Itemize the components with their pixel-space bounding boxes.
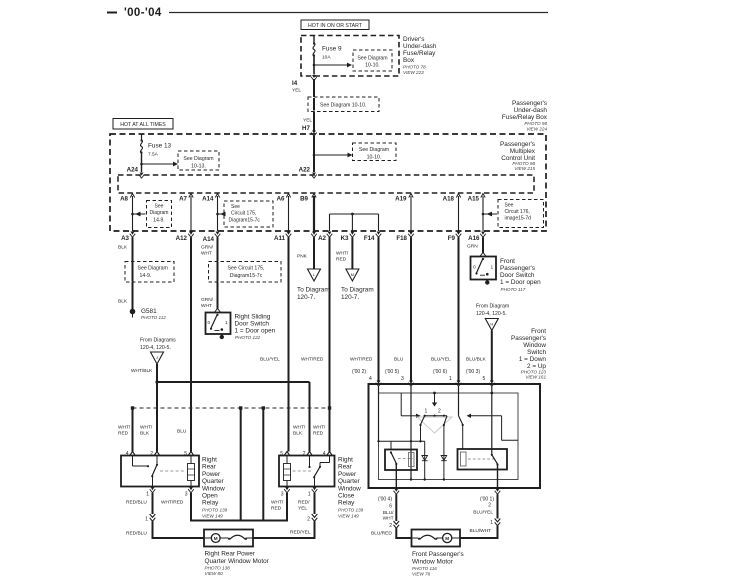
svg-text:120-7.: 120-7. [297, 294, 315, 301]
connector A16 [468, 232, 486, 243]
svg-text:'00-'04: '00-'04 [124, 7, 162, 19]
wire I4 to H7 [313, 79, 315, 131]
wire A18-F9 [458, 196, 460, 231]
wire A15-A16 [482, 196, 484, 231]
svg-text:('00 6): ('00 6) [433, 369, 447, 375]
svg-text:A24: A24 [127, 167, 139, 174]
svg-text:PHOTO 78: PHOTO 78 [403, 65, 426, 70]
svg-text:PHOTO 98: PHOTO 98 [524, 121, 547, 126]
passenger's multiplex control unit label [500, 141, 536, 171]
close relay pin 2 connector [303, 451, 313, 457]
svg-text:('00 2): ('00 2) [352, 369, 366, 375]
wire K3 WHT/RED to off-page arrow [336, 237, 352, 269]
svg-text:BLK: BLK [118, 299, 128, 305]
svg-text:WHT/: WHT/ [271, 500, 284, 506]
svg-text:('00 5): ('00 5) [385, 369, 399, 375]
svg-text:See: See [155, 204, 164, 210]
svg-text:Fuse/Relay: Fuse/Relay [403, 50, 436, 57]
svg-text:1: 1 [146, 492, 149, 498]
svg-text:2: 2 [389, 523, 392, 529]
svg-text:F18: F18 [396, 235, 407, 242]
quarter window motor label [205, 551, 270, 577]
wire BLU/BLK down to window switch pin 5 [466, 331, 492, 383]
connector A24 [127, 167, 145, 179]
svg-text:A3: A3 [121, 235, 129, 242]
wire A19-F18 [410, 196, 412, 231]
junction + arrow to see-diagram box [313, 63, 352, 68]
wire tie to lower WHT/RED bus (right) [262, 408, 264, 521]
multiplex control unit band (inner dashed box) [118, 175, 534, 193]
svg-text:RED: RED [313, 431, 324, 437]
wire B9 down [313, 196, 315, 231]
wire tie to open relay pin 4 [132, 408, 134, 452]
wire F18 down to window switch pin 3 [385, 237, 411, 382]
dashed tie line (connector) [131, 406, 331, 409]
wire WHT/BLK from triangle to open relay pin 2 [131, 364, 157, 452]
close relay interior [284, 456, 330, 487]
svg-text:B9: B9 [300, 196, 308, 203]
svg-text:BLU: BLU [177, 429, 187, 435]
svg-text:Window: Window [523, 342, 546, 349]
svg-text:H7: H7 [302, 125, 310, 132]
svg-text:WHT/RED: WHT/RED [301, 357, 324, 363]
svg-text:BLU/RED: BLU/RED [371, 531, 392, 537]
svg-text:Door Switch: Door Switch [235, 321, 270, 328]
svg-text:Rear: Rear [202, 464, 217, 471]
svg-text:Fuse/Relay Box: Fuse/Relay Box [502, 114, 548, 121]
svg-text:Driver's: Driver's [403, 36, 424, 43]
bracket tying A2/K3/F14 [330, 213, 379, 231]
to diagram 120-7 triangle (WHT/RED) [341, 269, 374, 301]
open relay pin 3 connector [185, 487, 194, 498]
open relay pin 1 connector [146, 487, 155, 498]
svg-text:RED/: RED/ [298, 500, 310, 506]
svg-text:PHOTO 139: PHOTO 139 [202, 508, 228, 513]
title '00-'04 [107, 7, 162, 19]
open relay label [202, 457, 228, 519]
wire A14 GRN/WHT to sliding door switch [201, 237, 218, 309]
svg-text:BLK: BLK [293, 431, 303, 437]
svg-text:F14: F14 [364, 235, 375, 242]
svg-text:VIEW 149: VIEW 149 [202, 514, 223, 519]
svg-text:120-4, 120-5.: 120-4, 120-5. [140, 345, 171, 351]
connector I4 at box bottom [292, 75, 317, 94]
svg-text:From Diagrams: From Diagrams [140, 338, 176, 344]
svg-text:Right Sliding: Right Sliding [235, 314, 271, 321]
svg-text:See: See [505, 203, 514, 209]
svg-text:A6: A6 [277, 196, 285, 203]
svg-text:0: 0 [473, 265, 476, 271]
svg-text:YEL: YEL [292, 88, 301, 94]
svg-text:Front Passenger's: Front Passenger's [412, 551, 464, 558]
svg-text:Switch: Switch [527, 349, 546, 356]
svg-text:Fuse 13: Fuse 13 [148, 143, 172, 150]
HOT AT ALL TIMES box [113, 119, 173, 130]
see circuit 175 box (inside unit) + arrow [216, 201, 273, 227]
svg-text:2: 2 [488, 503, 491, 509]
svg-text:VIEW 78: VIEW 78 [412, 572, 431, 577]
svg-text:Right Rear Power: Right Rear Power [205, 551, 256, 558]
pin A15 [468, 194, 486, 203]
dots on bottom bus [410, 478, 445, 480]
svg-text:Window: Window [338, 485, 361, 492]
svg-text:BLK: BLK [118, 245, 128, 251]
svg-text:WHT/RED: WHT/RED [161, 500, 184, 506]
svg-text:BLU/YEL: BLU/YEL [260, 357, 280, 363]
see circuit 176 box + arrow [482, 200, 544, 228]
svg-text:A7: A7 [179, 196, 187, 203]
fuse F13 7.5A [140, 134, 171, 158]
svg-text:14-9.: 14-9. [153, 218, 164, 224]
rocker middle contact lever [443, 416, 447, 480]
driver's under-dash fuse/relay box (dashed) [301, 36, 399, 77]
svg-text:Front: Front [500, 258, 515, 265]
svg-text:RED/BLU: RED/BLU [126, 500, 147, 506]
svg-text:PHOTO 139: PHOTO 139 [338, 508, 364, 513]
open relay wire labels [118, 425, 153, 437]
pin A14 [202, 194, 220, 203]
svg-text:VIEW 224: VIEW 224 [526, 127, 547, 132]
wire WHT/BLK horizontal to close relay pin 2 [157, 382, 310, 452]
svg-text:A18: A18 [443, 196, 455, 203]
connector A14 (lower) [203, 232, 221, 244]
svg-text:1: 1 [490, 520, 493, 526]
svg-text:K3: K3 [341, 235, 349, 242]
svg-text:Diagram15-7c: Diagram15-7c [229, 218, 261, 224]
svg-text:See: See [231, 204, 240, 210]
close relay label [338, 457, 364, 519]
svg-text:1: 1 [308, 492, 311, 498]
see diagram 14-9 box (lower) [125, 262, 174, 283]
svg-text:('00 3): ('00 3) [466, 369, 480, 375]
svg-text:1 = Down: 1 = Down [519, 356, 547, 363]
window switch connector pin 3 [408, 381, 414, 387]
open relay interior [133, 456, 195, 487]
svg-text:See Diagram 10-10.: See Diagram 10-10. [320, 103, 366, 109]
svg-text:WHT/: WHT/ [313, 425, 326, 431]
svg-text:Open: Open [202, 493, 218, 500]
rocker pivot bar [424, 415, 448, 417]
connector A12 [176, 232, 194, 243]
close relay pin 1 connector [308, 487, 318, 498]
wire A8-A3 [132, 196, 134, 231]
svg-text:WHT/: WHT/ [336, 251, 349, 257]
svg-text:HOT IN ON OR START: HOT IN ON OR START [308, 23, 363, 29]
window switch connector pin 1 [456, 381, 462, 387]
svg-text:See Diagram: See Diagram [359, 147, 389, 153]
svg-text:Rear: Rear [338, 464, 353, 471]
svg-text:Fuse 9: Fuse 9 [322, 46, 342, 53]
pin1 contact lever [459, 416, 464, 449]
wire open relay pin3 WHT/RED bus [191, 493, 287, 521]
svg-text:PHOTO 116: PHOTO 116 [412, 566, 437, 571]
svg-text:M: M [445, 536, 449, 541]
wire RED/BLU to motor [126, 521, 204, 538]
labels RED/BLU WHT/RED below open relay [126, 500, 184, 506]
connector A22 [299, 167, 317, 179]
svg-text:VIEW 149: VIEW 149 [338, 514, 359, 519]
top rule line [169, 12, 548, 14]
svg-text:3: 3 [281, 492, 284, 498]
wire F14 down to window switch pin 4 [350, 237, 379, 382]
svg-text:BLU/YEL: BLU/YEL [473, 510, 493, 516]
svg-text:To Diagram: To Diagram [341, 287, 374, 294]
HOT IN ON OR START box [301, 20, 369, 30]
svg-text:4: 4 [369, 376, 372, 382]
svg-text:Circuit 175,: Circuit 175, [231, 211, 256, 217]
open relay pin 4 connector [126, 451, 136, 457]
connector A11 [274, 232, 291, 243]
svg-text:YEL: YEL [303, 118, 312, 124]
svg-text:120-4, 120-5.: 120-4, 120-5. [476, 311, 507, 317]
wire tie to lower WHT/RED bus (left) [240, 408, 242, 521]
wire F9 down to window switch pin 1 [431, 237, 459, 382]
svg-text:Relay: Relay [338, 500, 355, 507]
svg-text:10-10.: 10-10. [365, 63, 380, 69]
front passenger's window switch box [369, 384, 541, 488]
svg-text:('00 4): ('00 4) [378, 497, 392, 503]
svg-text:Quarter: Quarter [202, 478, 225, 485]
svg-text:GRN/: GRN/ [201, 297, 214, 303]
svg-text:RED: RED [336, 257, 347, 263]
svg-text:RED/BLU: RED/BLU [126, 531, 147, 537]
svg-text:Power: Power [202, 471, 221, 478]
svg-text:HOT AT ALL TIMES: HOT AT ALL TIMES [120, 122, 166, 128]
inline connector 2 [307, 514, 317, 523]
connector H7 at passenger box top [311, 131, 317, 137]
rocker left contact lever [419, 416, 424, 442]
svg-text:WHT/BLK: WHT/BLK [131, 368, 153, 374]
svg-text:Door Switch: Door Switch [500, 272, 535, 279]
wire open relay pin1 down [152, 493, 154, 514]
svg-text:1 = Door open: 1 = Door open [500, 279, 541, 286]
svg-text:To Diagram: To Diagram [297, 287, 330, 294]
pin A6 [277, 194, 291, 203]
svg-text:Right: Right [202, 457, 217, 464]
close relay pin 4 connector [323, 451, 333, 457]
svg-text:Passenger's: Passenger's [511, 335, 546, 342]
wire BLU/RED to front motor [371, 528, 412, 538]
svg-text:WHT/RED: WHT/RED [350, 357, 373, 363]
svg-text:WHT/: WHT/ [118, 425, 131, 431]
close relay pin 5 connector [280, 451, 290, 457]
svg-text:3: 3 [401, 376, 404, 382]
svg-text:image15-7d: image15-7d [505, 216, 532, 222]
connector F14 [364, 232, 381, 243]
pin A7 [179, 194, 193, 203]
connector A3 [121, 232, 135, 243]
svg-text:PHOTO 112: PHOTO 112 [141, 315, 166, 320]
connector A2 [318, 232, 332, 243]
interior bus at 441 [377, 440, 424, 449]
svg-text:Passenger's: Passenger's [500, 141, 535, 148]
svg-text:10A: 10A [322, 55, 331, 61]
svg-text:Diagram: Diagram [150, 210, 169, 216]
diode 1 [422, 441, 428, 479]
svg-text:WHT/: WHT/ [140, 425, 153, 431]
see diagram 10-10 box (lower) [353, 143, 397, 161]
svg-text:('00 1): ('00 1) [480, 497, 494, 503]
svg-text:A16: A16 [468, 235, 480, 242]
window switch label [511, 328, 546, 380]
pin A8 [120, 194, 135, 203]
wire BLU/WHT to front motor [460, 526, 498, 538]
svg-text:PNK: PNK [297, 254, 308, 260]
see diagram 10-13 box [178, 151, 219, 170]
svg-text:Window Motor: Window Motor [412, 559, 454, 566]
svg-text:From Diagram: From Diagram [476, 304, 509, 310]
switch interior: pin4 wire [378, 386, 380, 441]
right arm to loop [467, 414, 519, 441]
wire close relay pin1 down [314, 493, 316, 514]
right sliding door switch label [235, 314, 276, 341]
wire A11 BLU/YEL down to close relay pin 5 [260, 237, 289, 451]
window switch inner loop [379, 393, 519, 480]
connector F18 [396, 232, 413, 243]
right rear power quarter window motor [204, 530, 253, 547]
fuse F9 10A [313, 36, 342, 61]
svg-text:A14: A14 [203, 236, 215, 243]
svg-text:1 = Door open: 1 = Door open [235, 328, 276, 335]
wire right box to bottom pin 2 [497, 465, 499, 489]
svg-text:I4: I4 [292, 80, 298, 87]
wire A16 GRN to front passenger door switch [467, 237, 483, 253]
svg-text:PHOTO 117: PHOTO 117 [501, 287, 526, 292]
connector F9 [448, 232, 462, 243]
wire A2 down to tie line and close relay pin 4 [301, 237, 330, 451]
driver's box label [403, 36, 437, 75]
open relay pin 5 connector [184, 451, 194, 457]
svg-text:Right: Right [338, 457, 353, 464]
svg-text:F9: F9 [448, 235, 456, 242]
switch interior: pin5 wire [491, 386, 493, 455]
svg-text:Under-dash: Under-dash [403, 43, 437, 50]
connector K3 [341, 232, 356, 243]
svg-text:VIEW 215: VIEW 215 [514, 166, 535, 171]
svg-text:See Diagram: See Diagram [138, 266, 168, 272]
svg-text:14-9.: 14-9. [140, 273, 152, 279]
wire A7-A12 [190, 196, 192, 231]
from diagrams 120-4 120-5 (left) [140, 338, 176, 365]
pin A19 [395, 194, 413, 203]
svg-text:See Circuit 175,: See Circuit 175, [228, 266, 265, 272]
svg-text:BLU/WHT: BLU/WHT [470, 528, 492, 534]
svg-text:Under-dash: Under-dash [514, 107, 548, 114]
svg-text:1: 1 [145, 517, 148, 523]
svg-text:BLU: BLU [394, 357, 404, 363]
open relay pin 2 connector [150, 451, 160, 457]
svg-text:A2: A2 [318, 235, 326, 242]
svg-text:YEL: YEL [298, 506, 307, 512]
left arm from top bus [401, 393, 420, 418]
svg-text:Circuit 176,: Circuit 176, [505, 209, 530, 215]
svg-text:M: M [214, 536, 218, 541]
svg-text:PHOTO 122: PHOTO 122 [235, 335, 261, 340]
junction + arrow to see diagram 10-13 [140, 162, 178, 167]
svg-text:BLK: BLK [140, 431, 150, 437]
front passenger's door switch [471, 252, 497, 284]
svg-text:1: 1 [491, 265, 494, 271]
see diagram 10-10 box (mid) [308, 97, 379, 112]
svg-text:A22: A22 [299, 167, 311, 174]
svg-text:Passenger's: Passenger's [500, 265, 535, 272]
svg-text:A12: A12 [176, 235, 188, 242]
wire left box to bottom pin 6 [395, 464, 397, 488]
wire A14-A14 [217, 196, 219, 231]
front window motor label [412, 551, 464, 577]
svg-text:1: 1 [449, 376, 452, 382]
switch interior: pin3 wire [410, 386, 412, 480]
svg-text:Window: Window [202, 485, 225, 492]
svg-text:A15: A15 [468, 196, 480, 203]
svg-text:6: 6 [389, 504, 392, 510]
see diagram 10-10 box (in driver's box) [353, 50, 392, 71]
svg-text:10-13.: 10-13. [191, 164, 206, 170]
svg-text:RED: RED [118, 431, 129, 437]
svg-text:See Diagram: See Diagram [357, 56, 387, 62]
see circuit 175 box (lower) [209, 262, 282, 283]
svg-text:BLU/BLK: BLU/BLK [466, 357, 487, 363]
svg-text:Close: Close [338, 493, 355, 500]
svg-text:Front: Front [531, 328, 546, 335]
labels YEL H7 [302, 118, 312, 133]
svg-text:WHT: WHT [201, 251, 212, 257]
svg-text:Quarter: Quarter [338, 478, 361, 485]
svg-text:A14: A14 [202, 196, 214, 203]
svg-text:See Diagram: See Diagram [183, 156, 213, 162]
close relay wire labels [293, 425, 326, 437]
wire B9 PNK to off-page arrow [297, 237, 314, 269]
svg-text:10-10.: 10-10. [367, 155, 382, 161]
wire BLU/YEL right, inline connector 1 [473, 494, 500, 526]
svg-text:Relay: Relay [202, 500, 219, 507]
window switch connector pin 5 [489, 381, 495, 387]
diode 2 [441, 456, 447, 461]
pin A18 [443, 194, 461, 203]
wire fuse13 to A24 [141, 153, 143, 172]
svg-text:H: H [490, 322, 493, 327]
junction WHT/BLK [155, 380, 158, 383]
wire close relay pin3 to WHT/RED bus [286, 493, 288, 522]
svg-text:Passenger's: Passenger's [512, 100, 547, 107]
wire RED/YEL to motor [253, 521, 315, 538]
dots on top bus [433, 392, 493, 395]
svg-text:Box: Box [403, 57, 415, 64]
svg-text:RED: RED [271, 506, 282, 512]
wire A3 BLK to ground [118, 237, 133, 309]
pin B9 [300, 194, 316, 203]
svg-text:PHOTO 138: PHOTO 138 [205, 566, 231, 571]
close relay box [279, 456, 335, 487]
svg-text:0: 0 [208, 320, 211, 326]
front passenger's door switch label [500, 258, 541, 292]
svg-text:GRN: GRN [467, 244, 478, 250]
svg-text:WHT/: WHT/ [293, 425, 306, 431]
svg-text:VIEW 161: VIEW 161 [525, 375, 546, 380]
rocker triangle (light) [417, 417, 452, 433]
svg-text:A8: A8 [120, 196, 128, 203]
svg-text:Multiplex: Multiplex [510, 148, 536, 155]
inline connector 1 [145, 514, 155, 523]
passenger's box label [502, 100, 548, 132]
svg-text:VIEW 80: VIEW 80 [205, 571, 224, 576]
from diagram 120-4 120-5 (right) [476, 304, 509, 331]
window switch connector pin 4 [376, 381, 382, 387]
wire BLU/WHT left, inline connector 2 [383, 494, 400, 529]
svg-text:L: L [313, 272, 316, 277]
svg-text:A11: A11 [274, 235, 286, 242]
svg-text:7.5A: 7.5A [148, 152, 159, 158]
